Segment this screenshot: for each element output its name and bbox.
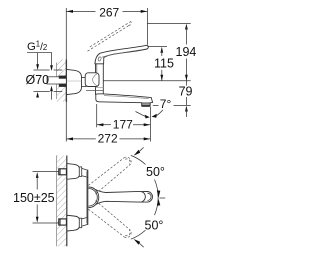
150±25 dimension — [13, 172, 59, 223]
lower union (plan) — [81, 217, 87, 226]
wall section (bottom view) hatched band — [57, 156, 67, 247]
arc end arrowheads — [134, 150, 141, 156]
272 dimension — [66, 132, 150, 146]
extension line from body bottom (177 left) — [96, 104, 98, 127]
faucet body block (side view) — [96, 64, 104, 95]
svg-text:7°: 7° — [160, 97, 172, 111]
bowtie arrows at lever axis + tick — [157, 190, 165, 206]
aerator / mousseur — [142, 103, 150, 106]
body front face (plan) — [87, 170, 89, 225]
79 dimension — [179, 81, 193, 117]
svg-text:115: 115 — [154, 57, 174, 71]
extension line at spout tip (177/272 right) — [149, 107, 151, 142]
50° dimension arc — [131, 155, 158, 239]
escutcheon cone (side view) — [67, 69, 82, 94]
union nut (side view) — [85, 73, 103, 91]
upper escutcheon (plan) — [67, 164, 82, 180]
svg-text:50°: 50° — [145, 219, 164, 233]
267 dimension — [66, 6, 147, 20]
115 dimension — [147, 46, 174, 80]
spout (side view) — [96, 94, 153, 107]
extension line at lever tip (267 right) — [146, 8, 148, 45]
axis extension line (bottom of 194/115, top of 79) — [103, 80, 190, 82]
svg-text:177: 177 — [113, 117, 133, 131]
svg-text:50°: 50° — [146, 165, 165, 179]
lever (plan view, solid) — [96, 190, 153, 205]
G 1/2 label — [27, 40, 52, 54]
cone mid seam — [67, 80, 86, 82]
svg-text:272: 272 — [98, 132, 118, 146]
177 dimension — [97, 117, 151, 131]
G 1/2 leader arrow — [36, 53, 39, 98]
upper supply stub (plan) — [59, 169, 67, 175]
svg-text:267: 267 — [99, 6, 119, 20]
cartridge circle (plan) — [89, 187, 99, 208]
dashed raised lever (side view) — [88, 21, 132, 51]
lever handle solid with neck (side view) — [95, 45, 148, 64]
svg-text:Ø70: Ø70 — [26, 73, 50, 87]
neck between cone and union nut — [82, 78, 87, 87]
supply stub through wall (side view) — [47, 76, 66, 87]
upper union (plan) — [81, 168, 87, 177]
svg-text:194: 194 — [176, 45, 197, 59]
wall section (top view) hatched band — [57, 60, 67, 103]
Ø70 dimension — [26, 53, 63, 100]
wall face / extension line (shared by 267 and 272 dims) — [65, 8, 67, 142]
svg-text:79: 79 — [179, 84, 193, 98]
7 degree label and angle arrows — [136, 97, 191, 118]
194 dimension — [147, 23, 196, 80]
dashed rotated lever down 50° (plan) — [88, 201, 131, 238]
lower escutcheon (plan) — [67, 215, 82, 231]
dashed rotated lever up 50° (plan) — [88, 157, 131, 194]
svg-text:150±25: 150±25 — [13, 191, 55, 205]
lower supply stub (plan) — [59, 219, 67, 225]
